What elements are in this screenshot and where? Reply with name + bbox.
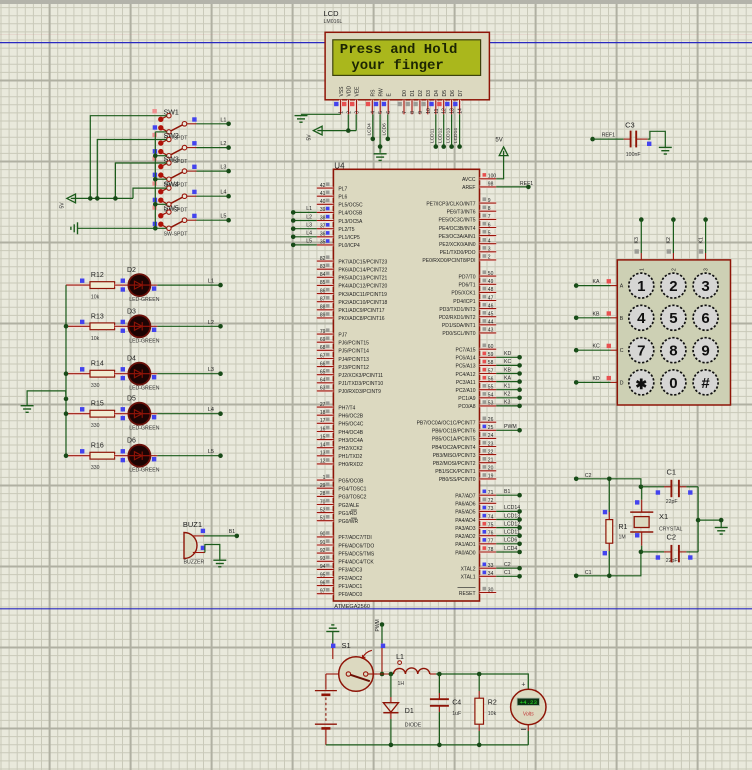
wire/net KA at pin 56 [496, 375, 522, 384]
U4 pin 78 (PA0/AD0) [455, 546, 496, 556]
svg-text:AVCC: AVCC [462, 177, 476, 183]
svg-text:B1: B1 [229, 529, 235, 535]
node junctions on switch ground rail [153, 153, 158, 230]
svg-text:L1: L1 [306, 206, 312, 212]
wire/net LCD14 at pin 73 [496, 505, 522, 514]
svg-text:PE5/OC3C/INT5: PE5/OC3C/INT5 [439, 218, 476, 224]
U4 pin 38 (PL3/OC5A) [317, 215, 363, 225]
svg-text:22: 22 [488, 449, 494, 455]
svg-text:PE4/OC3B/INT4: PE4/OC3B/INT4 [439, 226, 476, 232]
faint sheet marker line [0, 34, 752, 36]
svg-text:75: 75 [488, 522, 494, 528]
IC U4 part number label [334, 604, 370, 610]
U4 pin 17 (PH5/OC4C) [317, 418, 364, 428]
U4 pin 97 (PF0/ADC0) [317, 588, 363, 598]
svg-text:BUZZER: BUZZER [184, 560, 205, 566]
svg-text:AREF: AREF [462, 185, 475, 191]
resistor R12 (10k) [66, 272, 128, 301]
wire/net B1 at pin 71 [496, 489, 522, 498]
svg-text:PG5/OC0B: PG5/OC0B [338, 478, 364, 484]
LCD pin 2 (VDD) [342, 86, 353, 115]
svg-text:L2: L2 [208, 320, 214, 326]
wire/net PWM at pin 25 [496, 424, 522, 433]
svg-text:71: 71 [488, 490, 494, 496]
svg-text:60: 60 [488, 344, 494, 350]
LCD pin 11 (D4) [429, 90, 440, 114]
wire SW4 pole to node L4 [197, 190, 231, 199]
LCD pin 10 (D3) [421, 90, 432, 114]
svg-text:PH0/RXD2: PH0/RXD2 [338, 462, 363, 468]
svg-text:PG1/RD: PG1/RD [338, 511, 357, 517]
svg-text:D6: D6 [450, 90, 456, 97]
svg-text:10: 10 [426, 108, 432, 114]
svg-text:24: 24 [488, 433, 494, 439]
LCD LM016L body [325, 32, 489, 100]
svg-text:PK2/ADC10/PCINT18: PK2/ADC10/PCINT18 [338, 300, 387, 306]
svg-text:4: 4 [370, 111, 376, 114]
svg-text:PL7: PL7 [338, 186, 347, 192]
svg-text:RESET: RESET [459, 591, 476, 597]
resistor R14 (330) [66, 361, 128, 390]
diode D1 (DIODE) [383, 674, 421, 747]
U4 pin 100 (AVCC) [462, 173, 496, 183]
U4 pin 86 (PK3/ADC11/PCINT19) [317, 288, 387, 298]
power +5V (U4 AVCC) [495, 138, 508, 179]
keypad button 7 [629, 338, 654, 363]
node junction R2 top [477, 672, 482, 677]
svg-text:A: A [620, 284, 624, 290]
svg-text:BUZ1: BUZ1 [183, 520, 202, 529]
svg-text:LED-GREEN: LED-GREEN [129, 297, 160, 303]
svg-text:D2: D2 [127, 267, 136, 274]
svg-text:5: 5 [378, 111, 384, 114]
svg-text:PJ3/PCINT12: PJ3/PCINT12 [338, 365, 369, 371]
U4 pin 93 (PF4/ADC4/TCK) [317, 556, 375, 566]
svg-text:59: 59 [488, 352, 494, 358]
svg-text:3: 3 [701, 278, 709, 295]
svg-text:79: 79 [320, 329, 326, 335]
svg-text:PD0/SCL/INT0: PD0/SCL/INT0 [442, 331, 475, 337]
svg-text:72: 72 [488, 498, 494, 504]
capacitor C4 (1uF) [430, 674, 461, 747]
svg-text:Volts: Volts [523, 711, 534, 717]
keypad button 3 [693, 273, 718, 298]
svg-text:PJ5/PCINT14: PJ5/PCINT14 [338, 349, 369, 355]
U4 pin 67 (PJ4/PCINT13) [317, 353, 369, 363]
svg-text:5V: 5V [307, 134, 313, 141]
svg-text:+4.23: +4.23 [520, 699, 538, 706]
svg-text:D4: D4 [127, 356, 136, 363]
U4 pin 63 (PJ0/RXD3/PCINT9) [317, 385, 381, 395]
svg-text:B1: B1 [504, 489, 510, 495]
wire net C2 top rail [576, 479, 641, 487]
wire SW4 top throw to 5V rail [133, 188, 167, 198]
svg-text:PF7/ADC7/TDI: PF7/ADC7/TDI [338, 535, 371, 541]
svg-text:L1: L1 [396, 654, 404, 661]
U4 pin 5 (PE3/OC3A/AIN1) [439, 230, 497, 240]
wire keypad row to node KA [574, 279, 617, 288]
svg-text:K1: K1 [698, 237, 704, 243]
ground (switch bank) [71, 222, 78, 234]
svg-text:S1: S1 [342, 641, 351, 650]
IC U4 ATMEGA2560 body [333, 169, 479, 601]
wire LCD RS to node LCD4 [367, 114, 376, 141]
svg-text:RS: RS [371, 89, 377, 97]
U4 pin 53 (PC0/A8) [458, 400, 496, 410]
wire/net KC at pin 58 [496, 359, 522, 368]
svg-text:PH5/OC4C: PH5/OC4C [338, 422, 363, 428]
svg-text:86: 86 [320, 288, 326, 294]
resistor R13 (10k) [66, 313, 128, 342]
svg-text:6: 6 [386, 111, 392, 114]
svg-text:LCD12: LCD12 [437, 128, 443, 143]
svg-text:58: 58 [488, 360, 494, 366]
svg-text:40: 40 [320, 199, 326, 205]
svg-text:LED-GREEN: LED-GREEN [129, 338, 160, 344]
svg-text:25: 25 [488, 425, 494, 431]
node REF1 [590, 133, 615, 142]
capacitor C1 (22pF) [641, 468, 698, 506]
svg-text:LCD4: LCD4 [504, 546, 517, 552]
svg-text:1: 1 [639, 268, 645, 271]
svg-text:PG4/TOSC1: PG4/TOSC1 [338, 487, 366, 493]
wire AREF to node REF1 [496, 181, 533, 189]
wire LCD E to node LCD6 [382, 114, 391, 141]
keypad column label 1 [639, 268, 645, 271]
U4 pin 20 (PB1/SCK/PCINT1) [435, 465, 496, 475]
resistor R15 (330) [66, 401, 128, 430]
wire/net L3 at U4 pin 37 [291, 223, 317, 232]
wire/net KB at pin 57 [496, 367, 522, 376]
U4 pin 66 (PJ3/PCINT12) [317, 361, 369, 371]
svg-text:5V: 5V [495, 138, 502, 144]
buzzer pin 2 to ground [193, 545, 220, 561]
svg-text:55: 55 [488, 385, 494, 391]
svg-text:PD3/TXD1/INT3: PD3/TXD1/INT3 [439, 307, 475, 313]
svg-text:R16: R16 [91, 443, 104, 450]
U4 pin 92 (PF5/ADC5/TMS) [317, 547, 375, 557]
wire ground to S1 [331, 632, 335, 660]
U4 pin 51 (PG0/WR) [317, 515, 359, 525]
wire SW4 bottom throw to ground rail [155, 203, 166, 205]
svg-text:51: 51 [320, 516, 326, 522]
svg-text:XTAL2: XTAL2 [461, 567, 476, 573]
svg-text:KB: KB [504, 367, 511, 373]
svg-text:73: 73 [488, 506, 494, 512]
U4 pin 54 (PC1/A9) [458, 392, 496, 402]
svg-text:36: 36 [320, 232, 326, 238]
svg-text:77: 77 [488, 539, 494, 545]
svg-text:LCD12: LCD12 [504, 521, 520, 527]
ground (LCD VSS) [295, 114, 341, 122]
LCD pin 1 (VSS) [334, 86, 345, 114]
svg-text:KA: KA [504, 375, 511, 381]
sheet border line (bottom) [0, 608, 752, 610]
wire C3 to ground [648, 131, 666, 147]
wire LCD D5 to node LCD12 [437, 114, 446, 149]
U4 pin 94 (PF3/ADC3) [317, 564, 363, 574]
svg-text:+: + [521, 682, 525, 689]
U4 pin 42 (PL7) [317, 182, 348, 192]
LED D3 (LED-GREEN) [121, 308, 160, 344]
U4 pin 73 (PA5/AD5) [455, 506, 496, 516]
svg-text:D6: D6 [127, 438, 136, 445]
svg-text:PWM: PWM [504, 424, 517, 430]
U4 pin 34 (XTAL1) [461, 571, 497, 581]
svg-text:PA2/AD2: PA2/AD2 [455, 534, 475, 540]
svg-text:17: 17 [320, 418, 326, 424]
svg-text:PJ2/XCK3/PCINT11: PJ2/XCK3/PCINT11 [338, 373, 383, 379]
wire SW3 pole to node L3 [197, 165, 231, 174]
wire keypad column to node K1 [698, 217, 707, 260]
svg-text:PD1/SDA/INT1: PD1/SDA/INT1 [442, 323, 476, 329]
svg-text:7: 7 [402, 111, 408, 114]
ground (C3) [659, 147, 672, 154]
keypad button 0 [661, 370, 686, 395]
U4 pin 22 (PB3/MISO/PCINT3) [433, 449, 496, 459]
svg-text:L5: L5 [220, 214, 226, 220]
U4 pin 33 (XTAL2) [461, 563, 497, 573]
svg-text:PB1/SCK/PCINT1: PB1/SCK/PCINT1 [435, 469, 476, 475]
svg-text:76: 76 [488, 531, 494, 537]
wire/net L5 at U4 pin 35 [291, 239, 317, 248]
wire S1 to L1 [377, 673, 393, 675]
svg-text:11: 11 [434, 108, 440, 113]
svg-text:6: 6 [701, 310, 709, 327]
wire/net L4 at U4 pin 36 [291, 231, 317, 240]
svg-text:LCD13: LCD13 [504, 513, 520, 519]
svg-text:84: 84 [320, 272, 326, 278]
svg-text:0: 0 [669, 375, 677, 392]
svg-text:D4: D4 [434, 90, 440, 97]
LED D4 (LED-GREEN) [121, 356, 160, 392]
svg-text:C1: C1 [667, 468, 677, 477]
resistor R1 (1M) [603, 477, 628, 579]
svg-text:SW-SPDT: SW-SPDT [164, 232, 189, 238]
svg-text:PK7/ADC15/PCINT23: PK7/ADC15/PCINT23 [338, 259, 387, 265]
wire/net C1 at pin 34 [496, 570, 522, 579]
keypad button 1 [629, 273, 654, 298]
wire LED D4 to node L3 [157, 367, 222, 376]
switch S1 (rotary) [326, 641, 377, 691]
svg-text:PF4/ADC4/TCK: PF4/ADC4/TCK [338, 560, 374, 566]
svg-text:96: 96 [320, 580, 326, 586]
svg-text:PD5/XCK1: PD5/XCK1 [451, 291, 475, 297]
svg-text:PF1/ADC1: PF1/ADC1 [338, 584, 362, 590]
svg-text:15: 15 [320, 434, 326, 440]
U4 pin 75 (PA3/AD3) [455, 522, 496, 532]
U4 pin 29 (PG4/TOSC1) [317, 483, 367, 493]
buzzer BUZ1 label [183, 520, 205, 566]
svg-text:L5: L5 [208, 449, 214, 455]
svg-text:C3: C3 [625, 121, 635, 130]
svg-text:45: 45 [488, 312, 494, 318]
wire LED ground rail (vertical) [65, 285, 67, 456]
svg-text:9: 9 [488, 198, 491, 204]
svg-text:PJ6/PCINT15: PJ6/PCINT15 [338, 341, 369, 347]
svg-text:RW: RW [378, 88, 384, 97]
svg-text:LCD11: LCD11 [504, 530, 520, 536]
svg-text:KB: KB [593, 311, 600, 317]
U4 pin 82 (PK7/ADC15/PCINT23) [317, 255, 388, 265]
svg-text:95: 95 [320, 572, 326, 578]
svg-text:30: 30 [488, 587, 494, 593]
svg-text:PC6/A14: PC6/A14 [455, 356, 475, 362]
svg-text:PJ7: PJ7 [338, 332, 347, 338]
wire LCD D7 to node LCD14 [453, 114, 462, 149]
svg-text:PH2/XCK2: PH2/XCK2 [338, 446, 362, 452]
svg-text:4: 4 [637, 310, 646, 327]
svg-text:LED-GREEN: LED-GREEN [129, 386, 160, 392]
svg-text:L2: L2 [220, 141, 226, 147]
keypad column label 2 [671, 268, 677, 271]
svg-text:53: 53 [488, 401, 494, 407]
svg-text:100nF: 100nF [626, 152, 641, 158]
svg-text:19: 19 [488, 474, 494, 480]
svg-text:88: 88 [320, 305, 326, 311]
svg-text:PH6/OC2B: PH6/OC2B [338, 414, 363, 420]
svg-text:L3: L3 [208, 367, 214, 373]
svg-text:LCD6: LCD6 [504, 538, 517, 544]
wire SW1 bottom throw to ground rail [155, 131, 166, 133]
svg-text:PJ4/PCINT13: PJ4/PCINT13 [338, 357, 369, 363]
U4 pin 27 (PH7/T4) [317, 401, 356, 411]
svg-text:1H: 1H [398, 681, 405, 687]
wire switch ground rail (vertical) [154, 132, 156, 228]
svg-text:PC3/A11: PC3/A11 [456, 380, 476, 386]
svg-text:D7: D7 [458, 90, 464, 97]
wire/net K3 at pin 53 [496, 400, 522, 409]
svg-text:3: 3 [355, 111, 361, 114]
U4 pin 36 (PL1/ICP5) [317, 231, 360, 241]
U4 pin 50 (PD7/T0) [459, 270, 497, 280]
svg-text:100: 100 [488, 174, 497, 180]
LED D2 (LED-GREEN) [121, 267, 160, 303]
wire/net LCD12 at pin 75 [496, 521, 522, 529]
svg-text:VSS: VSS [339, 86, 345, 97]
svg-text:33: 33 [488, 563, 494, 569]
switch SW5 (SW-SPDT) [152, 205, 196, 237]
ground (LED bank) [21, 406, 34, 413]
svg-text:12: 12 [442, 108, 448, 114]
U4 pin 55 (PC2/A10) [455, 384, 496, 394]
svg-text:46: 46 [488, 303, 494, 309]
keypad row label A [620, 284, 624, 290]
svg-text:X1: X1 [659, 512, 668, 521]
svg-text:93: 93 [320, 556, 326, 562]
wire LED rail to ground [27, 391, 66, 406]
U4 pin 16 (PH4/OC4B) [317, 426, 364, 436]
svg-text:PB3/MISO/PCINT3: PB3/MISO/PCINT3 [433, 453, 476, 459]
U4 pin 8 (PE6/T3/INT6) [447, 206, 497, 216]
svg-text:L3: L3 [220, 165, 226, 171]
U4 pin 46 (PD3/TXD1/INT3) [439, 303, 496, 313]
svg-text:LCD11: LCD11 [430, 128, 436, 143]
svg-text:47: 47 [488, 295, 494, 301]
svg-text:91: 91 [320, 540, 326, 546]
svg-text:PA0/AD0: PA0/AD0 [455, 550, 475, 556]
voltmeter (+4.23 Volts) [511, 682, 546, 730]
svg-text:✱: ✱ [635, 376, 647, 392]
svg-text:8: 8 [488, 206, 491, 212]
keypad button 2 [661, 273, 686, 298]
svg-text:PF0/ADC0: PF0/ADC0 [338, 592, 362, 598]
svg-text:13: 13 [450, 108, 456, 114]
U4 pin 47 (PD4/ICP1) [453, 295, 496, 305]
svg-text:1: 1 [339, 111, 345, 114]
svg-text:PC7/A15: PC7/A15 [455, 348, 475, 354]
svg-text:37: 37 [320, 224, 326, 230]
svg-text:PE2/XCK0/AIN0: PE2/XCK0/AIN0 [439, 242, 476, 248]
svg-text:R12: R12 [91, 272, 104, 279]
IC U4 label [334, 161, 345, 170]
svg-text:D1: D1 [410, 90, 416, 97]
wire SW3 top throw to 5V rail [115, 163, 166, 198]
LCD pin 4 (RS) [366, 89, 377, 114]
svg-text:PK6/ADC14/PCINT22: PK6/ADC14/PCINT22 [338, 268, 387, 274]
U4 pin 49 (PD6/T1) [459, 279, 497, 289]
svg-text:90: 90 [320, 532, 326, 538]
svg-text:3: 3 [704, 268, 710, 271]
keypad button 8 [661, 338, 686, 363]
wire SW5 bottom throw to ground symbol [78, 227, 167, 229]
switch SW3 (SW-SPDT) [152, 156, 196, 188]
svg-text:PB6/OC1B/PCINT6: PB6/OC1B/PCINT6 [432, 429, 476, 435]
LCD title label [324, 9, 343, 25]
U4 pin 65 (PJ2/XCK3/PCINT11) [317, 369, 383, 379]
wire L1 to voltmeter (top rail) [436, 674, 528, 690]
U4 pin 90 (PF7/ADC7/TDI) [317, 531, 372, 541]
svg-text:PG3/TOSC2: PG3/TOSC2 [338, 495, 366, 501]
svg-text:KC: KC [504, 359, 511, 365]
U4 pin 85 (PK4/ADC12/PCINT20) [317, 280, 388, 290]
U4 pin 74 (PA4/AD4) [455, 514, 496, 524]
svg-text:PA6/AD6: PA6/AD6 [455, 502, 475, 508]
wire SW2 pole to node L2 [197, 141, 231, 150]
ground (buzzer) [213, 560, 226, 567]
wire SW2 bottom throw to ground rail [155, 155, 166, 157]
keypad row label D [620, 380, 624, 386]
svg-text:PG2/ALE: PG2/ALE [338, 503, 360, 509]
svg-text:38: 38 [320, 215, 326, 221]
U4 pin 45 (PD2/RXD1/INT2) [439, 311, 496, 321]
svg-text:70: 70 [320, 499, 326, 505]
svg-text:PK4/ADC12/PCINT20: PK4/ADC12/PCINT20 [338, 284, 387, 290]
wire LED D6 to node L5 [157, 449, 222, 458]
U4 pin 70 (PG2/ALE) [317, 499, 360, 509]
U4 pin 87 (PK2/ADC10/PCINT18) [317, 296, 388, 306]
svg-text:21: 21 [488, 458, 494, 464]
svg-text:68: 68 [320, 345, 326, 351]
U4 pin 68 (PJ5/PCINT14) [317, 345, 369, 355]
keypad button 4 [629, 305, 654, 330]
U4 pin 13 (PH1/TXD2) [317, 450, 363, 460]
svg-text:2: 2 [671, 268, 677, 271]
wire/net LCD6 at pin 77 [496, 538, 522, 547]
wire/net KD at pin 59 [496, 351, 522, 360]
wire REF1 to C3 [593, 138, 624, 140]
wire crystal right vertical [696, 487, 701, 552]
wire net C1 bottom rail [576, 552, 641, 576]
svg-text:1: 1 [323, 475, 326, 481]
svg-text:PA4/AD4: PA4/AD4 [455, 518, 475, 524]
svg-text:65: 65 [320, 370, 326, 376]
svg-text:PD7/T0: PD7/T0 [459, 274, 476, 280]
LCD pin 8 (D1) [406, 90, 417, 114]
U4 pin 58 (PC5/A13) [455, 360, 496, 370]
svg-text:28: 28 [320, 491, 326, 497]
LCD pin 3 (VEE) [350, 86, 361, 114]
